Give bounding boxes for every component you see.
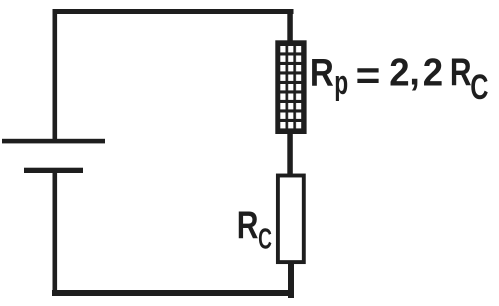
svg-text:p: p (334, 65, 348, 103)
wire left vertical lower (53, 171, 58, 296)
wire bottom horizontal (52, 290, 294, 296)
battery V1 short plate (24, 168, 83, 173)
svg-text:,: , (409, 50, 420, 93)
resistor Rp hatched body (275, 40, 306, 134)
label RC (237, 205, 272, 256)
svg-text:R: R (237, 205, 259, 247)
wire right vertical lower (288, 264, 294, 298)
svg-text:2: 2 (389, 51, 409, 94)
svg-text:C: C (470, 68, 488, 107)
svg-text:C: C (258, 224, 272, 256)
label Rp = 2,2 RC (310, 50, 489, 107)
svg-text:2: 2 (423, 51, 443, 94)
resistor Rc body (278, 176, 304, 263)
wire top horizontal (53, 9, 294, 14)
wire left vertical upper (53, 9, 58, 141)
battery V1 long plate (2, 139, 105, 144)
svg-text:R: R (310, 51, 334, 94)
svg-text:R: R (450, 52, 472, 94)
svg-text:=: = (356, 53, 381, 97)
wire between Rp and Rc (287, 133, 293, 175)
wire right vertical upper (287, 9, 293, 42)
